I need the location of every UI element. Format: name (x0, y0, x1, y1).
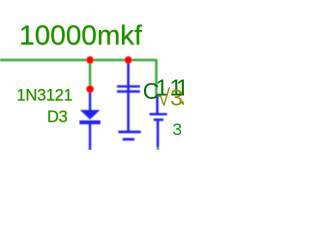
ground (below middle capacitor) (118, 131, 141, 134)
svg-text:D3: D3 (47, 108, 68, 126)
diode D3 (80, 110, 100, 120)
wire: main horizontal bus (0, 59, 156, 61)
svg-text:1N3121: 1N3121 (17, 87, 73, 105)
wire: blue segment of right branch (156, 96, 158, 113)
wire: right branch vertical green (top) (155, 59, 157, 96)
capacitor C1 (right, polarized) (150, 113, 168, 115)
wire: right branch green tip at bottom (157, 146, 159, 150)
wire: blue anode wire to diode D3 (89, 89, 91, 110)
svg-text:10000mkf: 10000mkf (19, 20, 142, 51)
junction node on bus (left) (86, 56, 93, 63)
capacitor (middle, non-polarized) (117, 85, 140, 87)
wire: capacitor to ground (127, 86, 129, 131)
svg-text:3: 3 (173, 120, 182, 139)
wire: left branch vertical green between junctions (89, 60, 91, 89)
wire: blue below right capacitor (157, 120, 159, 147)
junction node on bus (middle) (125, 56, 132, 63)
wire: blue cathode wire below diode (89, 123, 91, 150)
wire: blue drop to capacitor (127, 60, 129, 86)
junction node above diode (86, 85, 93, 92)
svg-text:1: 1 (176, 75, 184, 101)
